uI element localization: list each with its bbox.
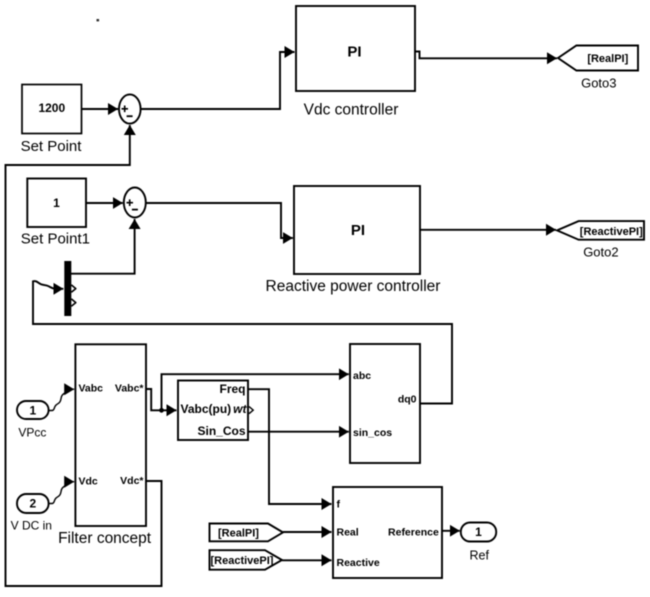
wire PLL Sin_Cos to dq0 sin_cos input [248,431,349,433]
svg-text:VPcc: VPcc [18,426,46,440]
svg-text:Goto2: Goto2 [583,245,618,260]
svg-text:[RealPI]: [RealPI] [587,53,628,65]
svg-text:[RealPI]: [RealPI] [218,527,259,539]
svg-text:f: f [337,499,341,511]
svg-text:PI: PI [351,222,365,239]
svg-text:1: 1 [53,196,60,210]
from tag From1 [ReactivePI] [210,550,283,570]
stray dot artifact near top [97,19,100,21]
svg-text:1200: 1200 [38,101,65,115]
wire VPcc to Filter concept Vabc [49,389,75,410]
subsystem Filter concept [58,344,152,547]
svg-text:Reference: Reference [388,527,439,539]
svg-text:Vdc: Vdc [79,475,98,487]
svg-text:Vdc*: Vdc* [120,475,144,487]
svg-text:Filter concept: Filter concept [58,530,152,547]
svg-text:Set Point1: Set Point1 [21,231,90,248]
svg-text:Goto3: Goto3 [581,76,616,91]
block PI U1 Vdc controller [296,6,415,119]
sum junction Sum2 [124,188,146,218]
svg-text:[ReactivePI]: [ReactivePI] [580,226,643,238]
wire Demux output to Sum2 minus input [71,219,135,274]
inport 1 VPcc [17,401,49,440]
svg-text:Reactive: Reactive [337,557,380,569]
wire V DC in to Filter concept Vdc [49,482,75,504]
svg-text:Vdc controller: Vdc controller [304,102,399,119]
wire Vdc* feedback to Sum1 minus input [6,125,162,586]
block PI U2 Reactive power controller [266,186,441,295]
block Set Point1 (Constant 1) [21,179,90,248]
svg-text:Freq: Freq [219,382,245,396]
sum junction Sum1 [119,94,141,123]
block PLL (Freq / Vabc(pu) wt / Sin_Cos) [178,381,248,441]
wire Set Point to Sum1 [82,108,119,110]
svg-text:Sin_Cos: Sin_Cos [197,424,245,438]
wire Sum2 to PI Reactive power controller [146,203,293,238]
svg-text:2: 2 [29,497,36,511]
unconnected demux port hook 1 [71,285,76,292]
outport 1 Ref [461,523,496,563]
wire Reference output to outport Ref [442,530,460,532]
svg-text:Vabc: Vabc [79,383,104,395]
svg-text:1: 1 [29,403,36,417]
wire junction to dq0 abc input [162,374,349,410]
block Set Point (Constant 1200) [21,85,83,156]
svg-text:1: 1 [475,525,482,539]
wire PI Vdc controller to Goto3 [415,52,557,59]
wire dq0 output feedback to Demux input [33,281,452,403]
svg-text:Vabc*: Vabc* [115,383,145,395]
wire From [RealPI] to Reference Real input [283,531,332,533]
wire PI Reactive power controller to Goto2 [420,229,556,231]
svg-text:abc: abc [353,370,371,382]
block Reference calculator [333,487,442,578]
svg-text:dq0: dq0 [398,394,417,406]
svg-text:Ref: Ref [469,549,489,563]
svg-text:Real: Real [337,526,359,538]
svg-text:Reactive power controller: Reactive power controller [266,278,441,295]
svg-text:wt: wt [233,402,247,416]
block abc to dq0 transform [350,344,420,463]
goto tag Goto3 [RealPI] [558,46,638,91]
svg-text:PI: PI [347,44,361,61]
svg-text:Set Point: Set Point [21,138,83,155]
svg-text:Vabc(pu): Vabc(pu) [181,402,232,416]
demux Demux [64,261,71,316]
svg-text:sin_cos: sin_cos [353,427,392,439]
wire Set Point1 to Sum2 [86,202,123,204]
from tag From [RealPI] [210,524,284,542]
unconnected PLL wt output port [249,407,253,414]
wire From1 [ReactivePI] to Reference Reactive input [282,559,332,561]
wire Sum1 to PI Vdc controller [141,52,295,109]
svg-text:V DC in: V DC in [11,518,52,532]
svg-text:[ReactivePI]: [ReactivePI] [211,555,274,567]
goto tag Goto2 [ReactivePI] [557,221,644,259]
unconnected demux port hook 2 [71,299,76,306]
inport 2 V DC in [11,494,52,532]
wire Vabc* to PLL input [146,389,177,410]
junction node on Vabc* wire [159,408,164,413]
wire PLL Freq to Reference f input [248,389,332,504]
